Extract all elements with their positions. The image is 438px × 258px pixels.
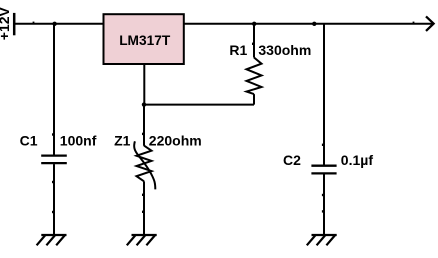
svg-text:+12V: +12V xyxy=(0,6,12,40)
svg-text:100nf: 100nf xyxy=(60,133,97,149)
svg-text:C1: C1 xyxy=(20,133,38,149)
svg-text:Z1: Z1 xyxy=(114,133,131,149)
svg-text:LM317T: LM317T xyxy=(119,32,170,48)
svg-text:220ohm: 220ohm xyxy=(149,133,202,149)
svg-text:330ohm: 330ohm xyxy=(258,42,311,58)
svg-text:0.1µf: 0.1µf xyxy=(341,152,374,168)
svg-text:C2: C2 xyxy=(283,152,301,168)
svg-text:R1: R1 xyxy=(229,42,247,58)
